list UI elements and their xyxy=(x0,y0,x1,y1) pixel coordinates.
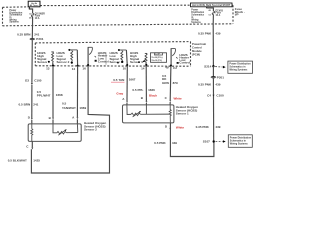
svg-text:0.5 PPL: 0.5 PPL xyxy=(132,88,143,92)
svg-text:439: 439 xyxy=(215,125,220,129)
svg-text:0.35 PNK: 0.35 PNK xyxy=(198,83,212,87)
svg-text:1425: 1425 xyxy=(33,159,40,163)
svg-text:C100: C100 xyxy=(34,79,42,83)
wire sensor1 D to S107 xyxy=(170,123,214,157)
svg-text:439: 439 xyxy=(172,141,177,145)
wire pin14 to sensor1 B xyxy=(145,66,147,101)
resistor R1 pin13 xyxy=(51,51,54,53)
power distribution text left xyxy=(9,10,22,24)
PCM label xyxy=(192,42,207,57)
svg-text:Wiring Systems: Wiring Systems xyxy=(230,142,249,145)
hot in run box xyxy=(191,3,233,7)
sensor 2 box xyxy=(28,124,81,141)
svg-text:0.35 BRN: 0.35 BRN xyxy=(17,33,30,37)
svg-text:PPL/WHT: PPL/WHT xyxy=(37,93,51,97)
internal link with resistor R3 xyxy=(118,49,120,51)
sensor 2 heater resistor xyxy=(31,124,33,141)
splice S107 xyxy=(213,140,215,142)
fuse element right xyxy=(212,11,214,14)
pin dots on pcm edge xyxy=(52,64,172,67)
svg-text:Hot In RUN, Bulb Test And STAR: Hot In RUN, Bulb Test And START xyxy=(192,4,231,7)
heater driver Q1 sensor 2 xyxy=(88,46,93,48)
fuse O2 left arrow and wire xyxy=(29,7,31,9)
svg-text:0.5 BLK/WHT: 0.5 BLK/WHT xyxy=(8,159,27,163)
svg-text:Gray: Gray xyxy=(116,91,123,95)
calibration table box xyxy=(151,53,167,63)
svg-text:1667: 1667 xyxy=(129,78,136,82)
svg-text:Systems: Systems xyxy=(191,21,201,24)
wire fuse to S214 0.35 PNK 439 xyxy=(212,24,214,65)
hot at all times box xyxy=(28,1,40,7)
internal link with resistor R2 xyxy=(68,49,70,51)
heater driver Q2 sensor 1 xyxy=(171,48,176,50)
resistor R4 pin14 right with arrow xyxy=(145,52,148,54)
HO2S heater low control text sensor 1 xyxy=(179,53,190,65)
HO2S high signal sensor 1 text xyxy=(130,51,143,64)
svg-text:C100: C100 xyxy=(216,94,224,98)
svg-text:Control: Control xyxy=(179,61,190,65)
svg-text:G3: G3 xyxy=(25,79,29,83)
svg-text:GRN: GRN xyxy=(162,81,169,85)
svg-text:1666: 1666 xyxy=(148,88,155,92)
svg-text:Control: Control xyxy=(192,46,202,50)
svg-text:D4: D4 xyxy=(29,17,31,20)
svg-text:C2: C2 xyxy=(173,66,177,70)
wire 0.35 BRN 241 xyxy=(31,26,33,38)
svg-text:14: 14 xyxy=(141,67,145,71)
fuse element left xyxy=(31,13,33,16)
pin numbers xyxy=(46,66,169,71)
svg-text:Control: Control xyxy=(98,59,109,63)
svg-text:P201: P201 xyxy=(217,76,224,80)
svg-text:10 A: 10 A xyxy=(35,17,40,20)
svg-text:439: 439 xyxy=(215,32,220,36)
svg-text:P201: P201 xyxy=(36,37,43,41)
svg-text:Sensor 2: Sensor 2 xyxy=(84,128,97,132)
fuse pins right xyxy=(208,9,210,17)
svg-text:13: 13 xyxy=(46,67,50,71)
sensor 2 label xyxy=(84,121,106,131)
svg-text:241: 241 xyxy=(34,33,39,37)
HO2S low signal sensor 1 text xyxy=(110,51,123,64)
svg-text:Sensor 1: Sensor 1 xyxy=(130,60,143,64)
svg-text:439: 439 xyxy=(215,83,220,87)
sensor 1 box xyxy=(123,105,174,123)
fuse label right xyxy=(216,10,224,17)
svg-text:Wiring Systems: Wiring Systems xyxy=(229,69,248,72)
wire P201 to S107 0.35 PNK 439 xyxy=(212,78,214,140)
svg-text:0.5 TAN: 0.5 TAN xyxy=(113,78,124,82)
svg-text:241: 241 xyxy=(33,103,38,107)
sensor 1 internals xyxy=(127,105,131,115)
svg-text:0.35 PNK: 0.35 PNK xyxy=(198,32,212,36)
svg-text:(PCM): (PCM) xyxy=(192,53,200,57)
svg-text:49: 49 xyxy=(165,66,169,70)
svg-text:15=12 (P2-): 15=12 (P2-) xyxy=(151,60,162,62)
separator line xyxy=(105,52,107,64)
connector C100 right xyxy=(213,95,215,97)
fuse label left xyxy=(35,14,45,20)
svg-text:C4: C4 xyxy=(207,94,211,98)
splice S214 xyxy=(212,65,214,67)
pin D sensor 2 xyxy=(31,118,33,120)
wire 0.5 BLK/WHT 1425 xyxy=(8,159,41,163)
svg-text:I/P: I/P xyxy=(235,12,239,16)
wire pin10 to sensor1 A xyxy=(126,66,128,101)
svg-text:1=TP: 1=TP xyxy=(155,54,160,56)
svg-text:0.5 BRN: 0.5 BRN xyxy=(19,103,31,107)
wire pin14 to sensor2 A xyxy=(76,66,78,118)
fuse block dashed box xyxy=(3,5,234,26)
svg-text:16: 16 xyxy=(82,66,86,70)
svg-text:10: 10 xyxy=(123,67,127,71)
svg-text:C4: C4 xyxy=(29,12,31,15)
svg-text:All Times: All Times xyxy=(30,4,40,7)
svg-text:11=18 (P2+): 11=18 (P2+) xyxy=(151,57,162,59)
svg-text:Systems: Systems xyxy=(9,21,19,24)
svg-text:A5: A5 xyxy=(208,9,210,12)
svg-text:S214: S214 xyxy=(204,64,211,68)
ref box power distribution 2 xyxy=(228,135,252,148)
svg-text:TAN/WHT: TAN/WHT xyxy=(62,106,76,110)
svg-text:0.5 PNK: 0.5 PNK xyxy=(154,141,166,145)
connector P201 right xyxy=(212,66,214,76)
svg-text:Sensor 1: Sensor 1 xyxy=(176,112,189,116)
svg-text:Sensor 2: Sensor 2 xyxy=(57,60,70,64)
fuse pins left xyxy=(29,12,31,19)
connector P201 left xyxy=(30,38,35,40)
svg-text:White: White xyxy=(176,125,184,129)
HO2S low signal sensor 2 text xyxy=(57,51,70,64)
sensor 2 element xyxy=(53,124,57,133)
svg-text:14: 14 xyxy=(72,67,76,71)
svg-text:S107: S107 xyxy=(203,140,210,144)
svg-text:1669: 1669 xyxy=(79,106,86,110)
wire 0.5 BRN 241 to sensor 2 xyxy=(31,85,33,118)
power distribution text right xyxy=(191,10,204,25)
svg-text:Black: Black xyxy=(149,93,157,97)
svg-text:Sensor 1: Sensor 1 xyxy=(110,60,123,64)
PCM dashed box xyxy=(35,42,190,67)
fuse block ip label xyxy=(235,7,245,16)
wire pin49 to sensor1 C xyxy=(169,66,172,100)
svg-text:0.35 PNK: 0.35 PNK xyxy=(196,125,210,129)
svg-text:1668: 1668 xyxy=(56,93,63,97)
svg-text:Powertrain: Powertrain xyxy=(192,42,207,46)
connector C100 xyxy=(31,83,33,85)
HO2S high signal sensor 2 text xyxy=(37,51,50,64)
ref box power distribution 1 xyxy=(228,61,253,73)
svg-text:Module: Module xyxy=(192,49,202,53)
wire pin16 ground loop xyxy=(31,66,109,173)
svg-text:879: 879 xyxy=(173,81,178,85)
svg-text:White: White xyxy=(174,96,182,100)
svg-text:C5: C5 xyxy=(208,15,210,17)
wire pin13 to sensor2 B xyxy=(52,66,54,118)
svg-text:15 A: 15 A xyxy=(216,14,221,17)
wire to C100 xyxy=(31,40,33,83)
fuse ECM B arrow and wire xyxy=(206,7,208,9)
HO2S heater low control text sensor 2 xyxy=(98,51,109,63)
sensor 1 label xyxy=(176,105,198,115)
